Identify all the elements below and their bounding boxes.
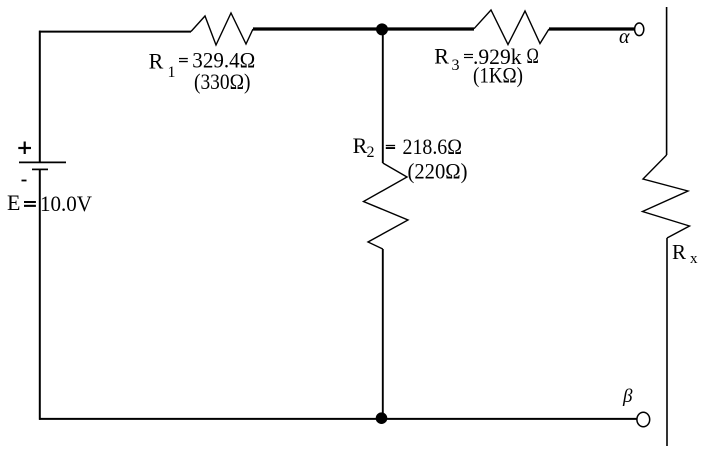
svg-text:E: E — [7, 190, 20, 215]
wire R1 to node A (thick) — [253, 27, 474, 30]
svg-text:R: R — [353, 133, 368, 158]
svg-text:x: x — [690, 251, 698, 267]
battery minus sign — [22, 180, 27, 182]
label R2 — [353, 133, 462, 161]
wire right vertical lower (Rx branch bottom) — [666, 238, 668, 446]
label R1 — [149, 48, 256, 82]
svg-text:10.0V: 10.0V — [40, 191, 92, 216]
svg-text:Ω: Ω — [527, 43, 539, 68]
wire R3 to terminal alpha (thick) — [549, 27, 634, 30]
svg-text:(220Ω): (220Ω) — [408, 159, 468, 184]
svg-text:R: R — [672, 240, 686, 264]
wire bottom horizontal — [39, 418, 637, 420]
battery E negative plate — [32, 168, 48, 170]
terminal beta circle — [637, 412, 650, 427]
node B junction dot bottom — [376, 412, 388, 424]
wire R2 down to node B — [382, 249, 384, 418]
label R3 — [434, 43, 539, 74]
svg-text:R: R — [149, 48, 164, 73]
resistor R2 — [364, 163, 409, 249]
svg-text:218.6Ω: 218.6Ω — [403, 134, 463, 159]
svg-text:(1KΩ): (1KΩ) — [473, 63, 523, 88]
resistor R3 — [474, 10, 549, 45]
wire node A down to R2 — [382, 29, 384, 163]
label E = 10.0V — [7, 190, 92, 216]
svg-text:(330Ω): (330Ω) — [194, 69, 251, 94]
wire right vertical upper (Rx branch top) — [666, 7, 668, 155]
svg-text:2: 2 — [367, 144, 375, 161]
resistor R1 — [191, 13, 253, 45]
battery E positive plate — [19, 161, 66, 163]
svg-text:α: α — [619, 26, 630, 48]
battery plus sign — [18, 142, 31, 155]
wire left vertical lower (battery - to bottom) — [39, 169, 41, 419]
node A junction dot top — [376, 23, 388, 35]
svg-text:β: β — [622, 386, 633, 407]
wire top-left horizontal from battery to R1 — [39, 31, 191, 33]
svg-text:3: 3 — [452, 57, 460, 74]
resistor Rx — [643, 155, 690, 238]
label Rx — [672, 240, 698, 267]
terminal alpha circle — [635, 23, 644, 36]
wire left vertical upper (battery + to top) — [39, 31, 41, 163]
svg-text:1: 1 — [168, 64, 176, 81]
svg-text:R: R — [434, 44, 449, 69]
